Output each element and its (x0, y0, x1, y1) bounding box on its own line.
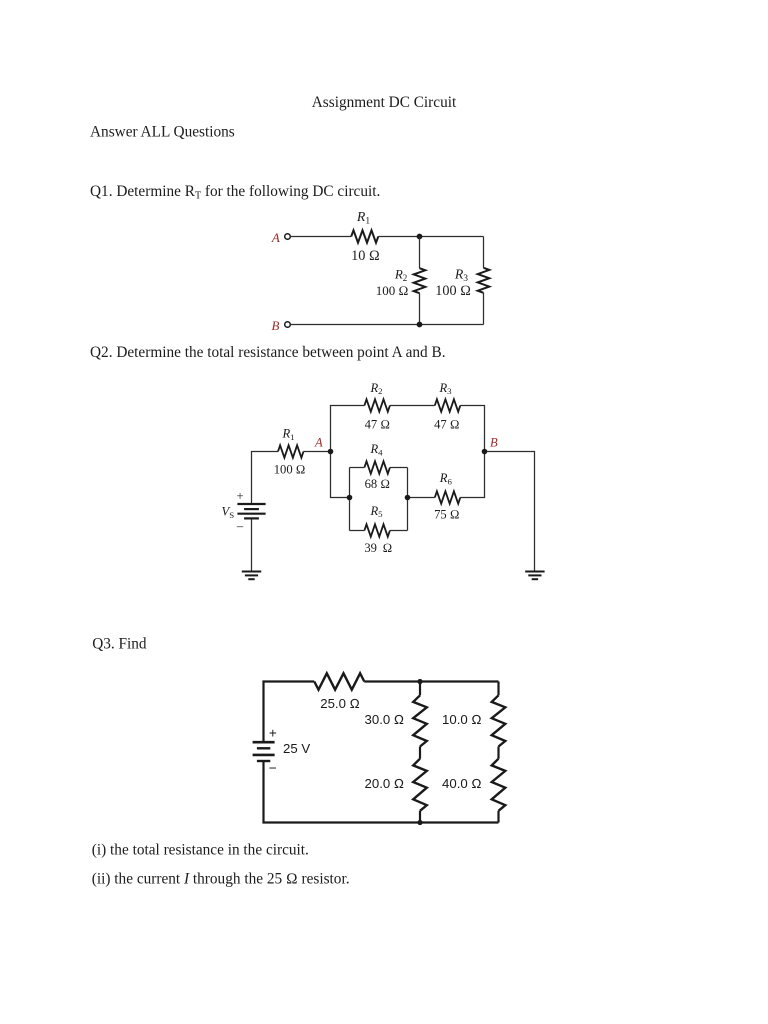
junction dot top q3 (417, 679, 422, 684)
svg-text:(i) the total resistance in th: (i) the total resistance in the circuit. (92, 842, 309, 859)
inner box top edge wires (350, 467, 365, 469)
junction dot box right (405, 495, 411, 501)
battery Vs plates (237, 503, 265, 505)
resistor 40ohm (492, 759, 506, 811)
svg-text:Answer ALL Questions: Answer ALL Questions (90, 123, 235, 140)
svg-text:R2: R2 (394, 267, 407, 284)
svg-text:R6: R6 (439, 471, 453, 486)
resistor 25ohm (314, 673, 364, 689)
wire right branch down (483, 237, 485, 268)
node A junction dot (328, 449, 334, 455)
bottom wire B to right (290, 324, 483, 326)
wire R1 to right branch (378, 236, 483, 238)
resistor R2 47ohm (364, 399, 390, 411)
svg-text:100 Ω: 100 Ω (376, 283, 409, 298)
svg-text:R2: R2 (369, 381, 382, 396)
junction node top (417, 234, 423, 240)
svg-text:20.0 Ω: 20.0 Ω (365, 776, 404, 791)
svg-text:47 Ω: 47 Ω (434, 417, 459, 431)
wire top of R2 (419, 237, 421, 269)
ground left (242, 571, 261, 573)
wire A to R1 (290, 236, 351, 238)
svg-text:−: − (269, 760, 277, 775)
junction dot box left (347, 495, 353, 501)
wire middle mid (419, 747, 421, 759)
junction node bottom (417, 322, 423, 328)
wire node B to right ground (485, 452, 535, 571)
svg-text:R3: R3 (438, 381, 452, 396)
svg-text:39 Ω: 39 Ω (364, 541, 392, 555)
wire battery to left ground (251, 519, 253, 571)
wire middle bottom (419, 811, 421, 823)
resistor R3 47ohm (435, 399, 461, 411)
svg-text:–: – (236, 519, 244, 533)
svg-text:100 Ω: 100 Ω (435, 283, 471, 299)
svg-text:R3: R3 (454, 267, 468, 285)
node B junction dot (482, 449, 488, 455)
svg-text:Q1. Determine RT for the follo: Q1. Determine RT for the following DC ci… (90, 183, 380, 202)
svg-text:47 Ω: 47 Ω (365, 417, 390, 431)
resistor R2 100ohm (414, 268, 426, 293)
svg-text:B: B (490, 435, 498, 449)
wire node A up to top branch (331, 406, 365, 452)
node A terminal (285, 234, 291, 240)
resistor 20ohm (413, 759, 427, 811)
svg-text:Q3. Find: Q3. Find (92, 636, 147, 653)
svg-text:Q2. Determine the total resist: Q2. Determine the total resistance betwe… (90, 344, 446, 361)
wire R3 to bottom (483, 293, 485, 325)
wire bottom of R2 (419, 293, 421, 324)
svg-text:68 Ω: 68 Ω (365, 477, 390, 491)
svg-text:10 Ω: 10 Ω (351, 248, 380, 264)
resistor 30ohm (413, 695, 427, 746)
svg-text:75 Ω: 75 Ω (434, 507, 459, 521)
inner box right side (407, 468, 409, 531)
resistor R6 75ohm (435, 491, 461, 503)
svg-text:R4: R4 (369, 442, 383, 457)
wire box to R6 (408, 497, 435, 499)
inner box left side (349, 468, 351, 531)
svg-text:(ii) the current I through the: (ii) the current I through the 25 Ω resi… (92, 871, 350, 888)
junction dot bottom q3 (417, 820, 422, 825)
wire right side top (497, 682, 499, 696)
wire R1 to node A (304, 451, 331, 453)
svg-text:40.0 Ω: 40.0 Ω (442, 776, 481, 791)
svg-text:A: A (314, 435, 323, 449)
wire R3 to node B via top right corner (460, 406, 484, 452)
svg-text:B: B (272, 318, 280, 333)
resistor R3 100ohm (478, 268, 490, 293)
wire middle top (419, 682, 421, 696)
svg-text:R1: R1 (281, 426, 294, 441)
svg-text:+: + (236, 489, 243, 503)
wire right bottom (497, 811, 499, 823)
resistor R4 68ohm (364, 461, 390, 473)
wire R6 up to node B (460, 452, 484, 498)
resistor R5 39ohm (364, 524, 390, 536)
svg-text:10.0 Ω: 10.0 Ω (442, 712, 481, 727)
wire 25ohm to top right corner (364, 680, 498, 682)
resistor 10ohm q3 (492, 695, 506, 746)
svg-text:25 V: 25 V (283, 741, 310, 756)
svg-text:100 Ω: 100 Ω (274, 463, 306, 477)
resistor R1 10ohm (351, 230, 378, 242)
wire between R2 and R3 (390, 405, 435, 407)
svg-text:VS: VS (222, 505, 235, 520)
svg-text:R1: R1 (356, 209, 370, 227)
svg-text:Assignment DC Circuit: Assignment DC Circuit (312, 94, 457, 111)
inner box bottom edge wires (350, 530, 365, 532)
svg-text:+: + (269, 725, 277, 740)
battery 25V plates (253, 741, 275, 744)
wire node A down to middle branch (331, 452, 350, 498)
wire right middle (497, 747, 499, 759)
svg-text:25.0 Ω: 25.0 Ω (320, 696, 359, 711)
resistor R1 100ohm horizontal (278, 445, 304, 457)
wire bottom (264, 761, 499, 823)
wire top left (264, 682, 315, 743)
node B terminal (285, 322, 291, 328)
svg-text:A: A (271, 230, 280, 245)
svg-text:R5: R5 (369, 504, 383, 519)
svg-text:30.0 Ω: 30.0 Ω (365, 712, 404, 727)
wire battery to R1 (252, 452, 279, 504)
ground right (525, 571, 544, 573)
